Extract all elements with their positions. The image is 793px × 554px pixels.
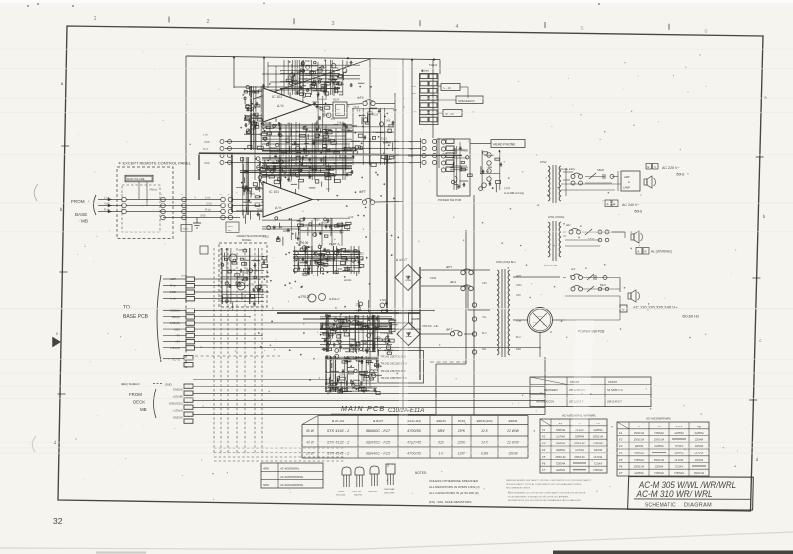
svg-text:YUN: YUN [516, 320, 521, 323]
svg-text:R-ch: R-ch [203, 148, 209, 151]
svg-text:F1: F1 [542, 428, 546, 432]
svg-text:9BA60C - K17: 9BA60C - K17 [366, 429, 391, 433]
svg-text:2SD1243: 2SD1243 [352, 491, 362, 493]
svg-text:BASE PCB: BASE PCB [123, 314, 149, 320]
svg-text:F2: F2 [619, 438, 623, 442]
svg-text:1K: 1K [358, 261, 361, 264]
svg-text:250V1.6A: 250V1.6A [633, 466, 645, 469]
svg-text:BLU: BLU [482, 332, 487, 335]
svg-text:L-ch: L-ch [205, 195, 211, 199]
svg-text:2SC1845: 2SC1845 [336, 495, 346, 497]
svg-text:T250V4A: T250V4A [556, 463, 566, 466]
svg-text:E,V,LB: E,V,LB [676, 426, 683, 428]
svg-text:(FS) : FAIL SAFE RESISTORS: (FS) : FAIL SAFE RESISTORS [429, 500, 471, 504]
svg-text:250V1.6A: 250V1.6A [693, 472, 705, 475]
svg-text:AC-M310WR/WRL: AC-M310WR/WRL [645, 417, 672, 421]
svg-text:6: 6 [704, 29, 707, 35]
svg-text:3.3µH: 3.3µH [337, 122, 344, 125]
svg-text:⊕F/: ⊕F/ [566, 223, 571, 227]
svg-text:ALL RESISTORS IN OHMS 1/4W,(J): ALL RESISTORS IN OHMS 1/4W,(J) [429, 485, 480, 489]
svg-text:STR/D7: STR/D7 [608, 380, 618, 384]
svg-text:( (nn): ( (nn) [504, 186, 510, 190]
svg-text:AC-M 310 WR/ WRL: AC-M 310 WR/ WRL [636, 489, 713, 499]
svg-text:MB: MB [81, 219, 88, 224]
svg-text:⊕EQ SHIELD: ⊕EQ SHIELD [121, 382, 140, 386]
svg-text:TW: TW [120, 194, 123, 196]
svg-text:Donate ⊕F/Δ: Donate ⊕F/Δ [560, 168, 575, 171]
svg-text:33K: 33K [307, 246, 312, 249]
svg-text:/50Hz: /50Hz [676, 173, 685, 177]
svg-text:2SD766: 2SD766 [354, 495, 363, 497]
svg-text:UL7V4A: UL7V4A [556, 436, 565, 439]
svg-text:R133: R133 [336, 333, 343, 336]
svg-text:PART Δ: PART Δ [329, 242, 340, 246]
svg-text:R152: R152 [282, 166, 289, 169]
svg-text:d: d [756, 457, 759, 462]
svg-text:⊕ 2C,101: ⊕ 2C,101 [332, 419, 345, 423]
svg-text:0.5: 0.5 [370, 138, 374, 141]
svg-text:WARNING! ALWAYS USE SAFETY CRI: WARNING! ALWAYS USE SAFETY CRITICAL COMP… [506, 479, 592, 482]
svg-text:TW: TW [219, 194, 222, 196]
svg-text:GRY: GRY [482, 282, 488, 285]
svg-text:⊕R161: ⊕R161 [508, 419, 518, 423]
svg-text:R119: R119 [372, 114, 378, 117]
svg-text:&: & [628, 180, 630, 184]
svg-text:250V1.6A: 250V1.6A [633, 439, 645, 442]
svg-text:⊕J/: ⊕J/ [571, 267, 575, 271]
svg-text:SW15: SW15 [183, 229, 190, 231]
svg-text:F6: F6 [542, 462, 546, 466]
svg-text:U: U [638, 426, 640, 428]
svg-text:Δ: Δ [585, 266, 587, 270]
svg-text:T250V2A: T250V2A [654, 472, 664, 475]
svg-text:50W: 50W [263, 483, 269, 487]
svg-text:F4: F4 [542, 448, 546, 452]
svg-text:⊕R143: ⊕R143 [436, 419, 446, 423]
svg-text:2.2K: 2.2K [348, 216, 353, 219]
svg-text:⊕F4: ⊕F4 [450, 280, 456, 284]
svg-text:⊕R151(163): ⊕R151(163) [476, 419, 492, 423]
svg-text:⊕TR106: ⊕TR106 [296, 241, 308, 245]
svg-text:LAMP: LAMP [623, 186, 630, 190]
svg-text:UL7V4A: UL7V4A [575, 449, 584, 452]
svg-text:POWER SW PCB: POWER SW PCB [438, 198, 461, 202]
svg-text:F5: F5 [619, 458, 623, 462]
svg-text:C118: C118 [294, 165, 300, 168]
svg-text:A: A [638, 250, 640, 254]
svg-text:ALL CAPACITORS IN µF 50 WR (Z): ALL CAPACITORS IN µF 50 WR (Z) [429, 491, 479, 495]
svg-text:F2: F2 [542, 435, 546, 439]
svg-text:2SB766AP: 2SB766AP [384, 488, 395, 491]
svg-text:GND: GND [204, 141, 210, 144]
svg-text:a: a [764, 95, 767, 100]
svg-text:Δ ⅓: Δ ⅓ [275, 206, 282, 210]
svg-text:TW: TW [159, 194, 162, 196]
svg-text:T250V4A: T250V4A [593, 469, 603, 472]
svg-text:CB: CB [657, 426, 661, 428]
svg-text:T250V4A: T250V4A [674, 472, 684, 475]
svg-text:C131: C131 [323, 113, 330, 116]
svg-text:4: 4 [455, 24, 458, 30]
svg-text:250V1.6A: 250V1.6A [573, 456, 585, 459]
svg-text:GND: GND [408, 155, 414, 158]
svg-text:25*K: 25*K [457, 429, 466, 433]
svg-text:SWR: SWR [228, 226, 234, 228]
svg-text:GND: GND [200, 215, 206, 218]
svg-text:FROM: FROM [129, 392, 142, 397]
svg-text:R-ch: R-ch [205, 207, 211, 211]
svg-text:Δ 6W+7: Δ 6W+7 [329, 297, 340, 301]
svg-text:⊕P.7: ⊕P.7 [446, 328, 453, 332]
svg-text:F7: F7 [542, 468, 546, 472]
svg-text:+: + [414, 326, 416, 329]
svg-text:⊕FT: ⊕FT [359, 190, 366, 194]
svg-text:c: c [56, 331, 59, 336]
svg-text:T250V4A: T250V4A [654, 432, 664, 435]
svg-text:(C141,113): (C141,113) [407, 419, 421, 423]
svg-text:32: 32 [53, 516, 63, 526]
svg-text:AC-M305W/WL: AC-M305W/WL [279, 467, 300, 471]
svg-text:VR(nn): VR(nn) [149, 188, 157, 192]
svg-text:R141: R141 [305, 60, 312, 63]
svg-text:2SD1243F: 2SD1243F [384, 493, 395, 495]
svg-text:250V1.6A: 250V1.6A [554, 456, 566, 459]
svg-text:N8 7264K C.G: N8 7264K C.G [607, 389, 623, 392]
svg-text:0.47µ: 0.47µ [588, 238, 594, 240]
svg-text:T250V2A: T250V2A [634, 459, 644, 462]
svg-text:+13V(A): +13V(A) [173, 409, 183, 413]
svg-text:E|V: E|V [559, 423, 563, 425]
svg-text:68W: 68W [438, 429, 446, 433]
svg-text:47u: 47u [376, 336, 381, 339]
svg-text:Lev: Lev [336, 109, 340, 111]
svg-text:E: E [648, 165, 650, 169]
svg-text:0.022: 0.022 [263, 236, 270, 239]
svg-text:✳REMOTE EXPANSION: ✳REMOTE EXPANSION [236, 234, 266, 238]
svg-text:G2PP4A: G2PP4A [694, 432, 704, 435]
svg-text:YEL: YEL [482, 316, 487, 319]
svg-text:T2.5A/V: T2.5A/V [594, 463, 603, 466]
svg-text:REMODEM: REMODEM [544, 388, 558, 392]
svg-text:470: 470 [238, 249, 243, 252]
svg-text:UNLESS OTHERWISE SPECIFIED: UNLESS OTHERWISE SPECIFIED [429, 479, 479, 483]
svg-text:R1?0 1.0 3W: R1?0 1.0 3W [544, 265, 558, 267]
svg-text:22 W/W: 22 W/W [506, 429, 520, 433]
svg-text:GRY: GRY [516, 294, 522, 297]
svg-text:T2.5A/V: T2.5A/V [675, 466, 684, 469]
svg-text:10W: 10W [336, 113, 341, 115]
svg-text:UL7V4A: UL7V4A [594, 456, 603, 459]
svg-text:IC 101: IC 101 [272, 95, 282, 99]
svg-text:+15V(M): +15V(M) [172, 395, 183, 399]
svg-text:AC-M310WR/WRL: AC-M310WR/WRL [279, 483, 304, 487]
svg-text:0.022: 0.022 [380, 299, 387, 302]
svg-text:ORG: ORG [516, 284, 522, 287]
svg-text:SPEAKER R: SPEAKER R [458, 99, 475, 103]
svg-text:L - ch: L - ch [444, 86, 452, 90]
svg-text:AC-M305WR/WRL: AC-M305WR/WRL [279, 475, 304, 479]
svg-text:TW101: TW101 [429, 63, 438, 67]
svg-text:4700/50: 4700/50 [407, 429, 422, 433]
svg-text:R133: R133 [381, 138, 388, 141]
svg-text:PEL: PEL [482, 348, 487, 351]
svg-text:BLU: BLU [516, 336, 521, 339]
svg-text:T250V4A: T250V4A [556, 429, 566, 432]
svg-text:c: c [759, 338, 762, 343]
svg-text:3: 3 [331, 21, 334, 27]
svg-text:G2PP4A: G2PP4A [556, 449, 566, 452]
svg-text:Δ: Δ [580, 224, 582, 228]
svg-text:DIAGRAM: DIAGRAM [684, 503, 712, 509]
svg-text:220V4A: 220V4A [694, 459, 704, 462]
svg-text:5: 5 [580, 26, 583, 32]
svg-text:2: 2 [206, 19, 209, 25]
svg-text:G2PP4A: G2PP4A [674, 432, 684, 435]
svg-text:WHT: WHT [516, 275, 522, 278]
svg-text:F5: F5 [542, 455, 546, 459]
svg-text:0.5: 0.5 [326, 188, 330, 191]
svg-text:F1: F1 [619, 431, 623, 435]
svg-text:220V4A: 220V4A [694, 439, 704, 442]
svg-text:6.8: 6.8 [357, 110, 361, 113]
svg-text:GND(O): GND(O) [173, 416, 183, 420]
svg-text:STK 4192 - 2: STK 4192 - 2 [327, 429, 350, 433]
svg-text:F6: F6 [619, 465, 623, 469]
svg-text:GND: GND [204, 162, 210, 165]
svg-text:R141: R141 [364, 380, 371, 383]
svg-text:POUR MAINTENIR LE REGARD DE SÉ: POUR MAINTENIR LE REGARD DE SÉCURITÉ DE … [508, 495, 570, 498]
svg-text:L-ch: L-ch [203, 134, 208, 137]
svg-text:GND(A): GND(A) [173, 388, 183, 392]
svg-text:AVERTISSEMENT! ΔLL UTILISE DES: AVERTISSEMENT! ΔLL UTILISE DES COMPOSANT… [508, 492, 586, 495]
svg-text:RED: RED [516, 348, 521, 351]
svg-text:⊕P7: ⊕P7 [446, 265, 453, 269]
svg-text:G2PP4A: G2PP4A [575, 436, 585, 439]
svg-text:UL7V4A: UL7V4A [675, 459, 684, 462]
svg-text:⊕ R10T: ⊕ R10T [373, 419, 384, 423]
svg-text:b: b [60, 207, 63, 212]
svg-text:B: B [607, 202, 609, 206]
svg-text:R: R [645, 250, 647, 254]
svg-text:250V1.6A: 250V1.6A [592, 436, 604, 439]
svg-text:G2PP4A: G2PP4A [634, 472, 644, 475]
svg-text:NOTES:: NOTES: [415, 471, 427, 475]
svg-text:56K: 56K [386, 120, 391, 123]
svg-text:220V4A: 220V4A [654, 466, 664, 469]
svg-text:/50Hz: /50Hz [634, 210, 643, 214]
svg-text:AC 220 V~: AC 220 V~ [662, 166, 679, 170]
svg-text:AMP: AMP [624, 175, 630, 179]
svg-text:R152: R152 [314, 219, 321, 222]
svg-text:NR REMOCON: NR REMOCON [536, 400, 554, 404]
svg-text:IC 101: IC 101 [269, 190, 279, 194]
svg-text:R124: R124 [333, 99, 340, 102]
svg-text:✳ EXCEPT REMOTE CONTROL PANEL: ✳ EXCEPT REMOTE CONTROL PANEL [118, 161, 192, 166]
svg-text:40W: 40W [263, 467, 269, 471]
svg-text:G2PP4A: G2PP4A [556, 469, 566, 472]
svg-text:TW: TW [227, 194, 230, 196]
svg-text:⊕CH1: ⊕CH1 [344, 278, 352, 282]
svg-text:F7: F7 [619, 471, 623, 475]
svg-text:DECK: DECK [133, 400, 145, 405]
svg-text:Δ ½: Δ ½ [277, 104, 284, 108]
svg-text:#BJ45: #BJ45 [338, 491, 345, 493]
svg-text:345µH: 345µH [597, 169, 604, 172]
svg-text:a: a [61, 81, 64, 86]
svg-text:G2PP4A: G2PP4A [593, 429, 603, 432]
svg-text:R153: R153 [458, 419, 465, 423]
svg-text:470: 470 [251, 193, 256, 196]
svg-text:ΔTN2: ΔTN2 [540, 161, 547, 164]
svg-text:C151: C151 [430, 276, 437, 280]
svg-text:6.8: 6.8 [393, 109, 397, 112]
svg-text:BASE: BASE [75, 212, 87, 217]
svg-text:TR103: TR103 [253, 260, 261, 263]
svg-text:50µH: 50µH [600, 284, 606, 287]
svg-text:ΔTN1 COOAC: ΔTN1 COOAC [548, 216, 564, 219]
svg-text:⊕CH3: ⊕CH3 [344, 268, 352, 272]
svg-text:GND(OSC): GND(OSC) [169, 402, 183, 406]
svg-text:HEAD PHONE: HEAD PHONE [493, 143, 516, 147]
svg-text:AL (20V/60Hz): AL (20V/60Hz) [651, 250, 672, 254]
svg-text:b: b [763, 214, 766, 219]
svg-text:2SB766P: 2SB766P [368, 491, 378, 493]
svg-text:H-L146B-w/ body: H-L146B-w/ body [504, 191, 525, 195]
svg-text:PM DC - HF: PM DC - HF [423, 324, 439, 328]
svg-text:250V1.6A: 250V1.6A [653, 439, 665, 442]
svg-text:2?0: 2?0 [596, 423, 600, 425]
svg-text:NE REMPLACER QUE DES PIÈCES RE: NE REMPLACER QUE DES PIÈCES RECOMMANDÉES… [508, 499, 582, 502]
svg-text:LBD: LBD [697, 426, 702, 428]
svg-text:MAIN PCB: MAIN PCB [341, 404, 385, 413]
svg-text:MODEL: MODEL [242, 238, 252, 242]
svg-text:50 W: 50 W [306, 429, 315, 433]
svg-text:MAIN VOLUME: MAIN VOLUME [127, 178, 145, 181]
svg-text:V: V [654, 165, 656, 169]
svg-text:25B (2.49 S.T: 25B (2.49 S.T [606, 401, 622, 404]
svg-text:ΔTW1 (100)4 BLU: ΔTW1 (100)4 BLU [496, 261, 516, 264]
svg-text:REPLACE SAFETY CRITICAL COMPON: REPLACE SAFETY CRITICAL COMPONENTS ONLY … [506, 483, 582, 486]
svg-text:12 K: 12 K [481, 429, 489, 433]
svg-text:220V4A: 220V4A [593, 449, 603, 452]
svg-text:250V1.6A: 250V1.6A [653, 459, 665, 462]
svg-text:/50,60 Hz: /50,60 Hz [682, 314, 699, 319]
svg-text:SCHEMATIC: SCHEMATIC [645, 502, 676, 508]
svg-text:1: 1 [93, 16, 96, 22]
svg-text:MB: MB [140, 407, 147, 412]
svg-text:RECOMMENDED PARTS.: RECOMMENDED PARTS. [506, 487, 531, 490]
svg-text:TW: TW [180, 194, 183, 196]
svg-text:250V1.6A: 250V1.6A [633, 432, 645, 435]
